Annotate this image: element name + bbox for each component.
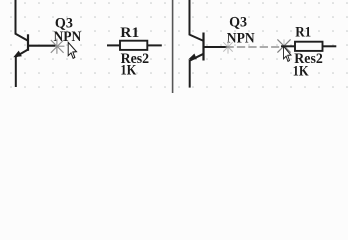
crosshair star at wire vertex (right) (223, 40, 232, 53)
resistor R1 body (right) (295, 42, 323, 51)
wire collector vertical Q3 (right) (189, 0, 191, 35)
grid dots (10, 2, 348, 88)
transistor Q3 emitter arrow (right) (188, 54, 197, 60)
transistor Q3 collector diagonal (right) (190, 35, 204, 41)
svg-text:NPN: NPN (54, 28, 82, 45)
wire base segment (28, 45, 56, 47)
transistor Q3 emitter arrow (13, 51, 22, 58)
crosshair star at wire end (51, 39, 65, 54)
panel divider (172, 0, 174, 93)
crosshair X at R1 pin (right) (277, 39, 290, 53)
mouse cursor arrow (68, 42, 76, 58)
resistor R1 right lead (147, 44, 162, 46)
resistor R1 body (120, 41, 147, 50)
wire emitter vertical (15, 56, 17, 87)
wire base segment (right) (204, 46, 228, 48)
wire collector vertical Q3 (15, 0, 17, 35)
svg-text:R1: R1 (120, 24, 139, 41)
transistor Q3 base bar (right) (202, 33, 204, 61)
svg-text:1K: 1K (293, 62, 309, 79)
transistor Q3 emitter diagonal (16, 50, 28, 57)
transistor Q3 emitter diagonal (right) (190, 54, 203, 61)
svg-text:Q3: Q3 (229, 13, 247, 30)
transistor Q3 base bar (27, 34, 29, 51)
svg-text:R1: R1 (295, 24, 311, 41)
wire emitter vertical (right) (189, 60, 191, 88)
resistor R1 left lead (107, 44, 120, 46)
resistor R1 right lead (right) (323, 45, 337, 47)
svg-text:1K: 1K (120, 62, 136, 79)
wire preview dashed segment (226, 46, 280, 48)
resistor R1 left lead (right) (281, 45, 295, 47)
mouse cursor arrow (right) (284, 46, 291, 61)
transistor Q3 collector diagonal (16, 34, 29, 41)
